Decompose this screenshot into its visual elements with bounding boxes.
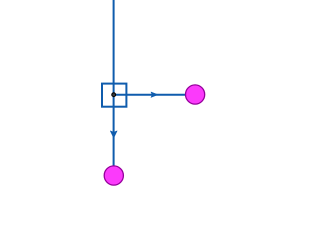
square node U1 <box>102 84 126 107</box>
arrowhead on vertical wire <box>110 131 117 138</box>
terminal node T1 (right magenta circle) <box>186 85 205 104</box>
arrowhead on horizontal wire <box>151 92 158 97</box>
terminal node T2 (bottom magenta circle) <box>104 166 123 185</box>
wire vertical trunk from top into square node and down to bottom terminal <box>113 0 115 166</box>
wire horizontal from junction dot to right terminal <box>114 94 186 96</box>
junction dot at node A <box>112 93 116 97</box>
